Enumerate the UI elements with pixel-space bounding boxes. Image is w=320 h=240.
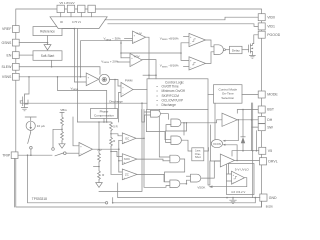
junction oc out — [143, 138, 145, 140]
wire ZC out — [137, 174, 170, 181]
VBG stack top — [60, 112, 64, 129]
wire contact to TRIP wire — [30, 149, 32, 155]
wire SW rail — [252, 103, 259, 151]
wire gm out to rail — [93, 148, 119, 150]
wire bst down to diode — [242, 110, 244, 137]
wire DAC select to VID0 — [105, 17, 258, 20]
junction TRIP b — [30, 154, 32, 156]
svg-text:10 µA: 10 µA — [37, 124, 45, 128]
svg-text:−UV: −UV — [136, 32, 142, 36]
gate G4 — [170, 155, 180, 163]
junction node2 — [103, 121, 105, 123]
hysteresis mark PG low — [192, 62, 195, 65]
pin MODE — [258, 91, 265, 98]
junction VBG tap — [61, 129, 63, 131]
wire G3 out to one-shot — [182, 140, 192, 151]
comparator PWM — [121, 82, 133, 96]
wire logic vertical B — [146, 110, 171, 140]
wire VSNS main — [19, 76, 86, 78]
wire PG high out — [206, 40, 215, 47]
junction VSNS discharge branch — [28, 76, 30, 78]
pin EN — [12, 52, 19, 59]
pin top3 — [78, 5, 85, 12]
junction window fb — [180, 52, 182, 54]
pin VID1 — [258, 23, 265, 30]
svg-text:EN: EN — [7, 53, 12, 57]
svg-text:•: • — [157, 85, 158, 89]
svg-text:7 R: 7 R — [97, 148, 101, 152]
svg-text:5 R: 5 R — [113, 125, 117, 129]
svg-text:NOC: NOC — [124, 157, 130, 161]
svg-text:Discharge: Discharge — [162, 103, 177, 107]
svg-text:V5OK: V5OK — [197, 186, 205, 190]
svg-text:GND: GND — [269, 196, 277, 200]
junction sw — [251, 119, 253, 121]
wire logic vertical A — [144, 110, 170, 188]
block 5-V UVLO — [227, 164, 255, 195]
pin top2 — [67, 5, 74, 12]
wire NOC out — [137, 159, 163, 161]
wire VBG tap to contact — [53, 129, 62, 147]
junction rail OV — [120, 52, 122, 54]
junction comp node — [114, 79, 116, 81]
wire comp node to phase comp — [114, 80, 116, 109]
switch arm (OC set select) — [28, 132, 31, 143]
junction SLEW soft-start — [51, 66, 53, 68]
wire on-time to xcon — [214, 103, 216, 139]
wire Soft-Start bottom to SLEW — [51, 60, 53, 66]
wire one-shot out — [204, 148, 209, 151]
svg-text:DRVL: DRVL — [268, 160, 277, 164]
svg-text:VSENS −8/16%: VSENS −8/16% — [160, 64, 179, 69]
window comparator feedback rail — [121, 52, 181, 54]
svg-text:VREF: VREF — [2, 27, 11, 31]
wire UVLO inputs — [227, 164, 232, 182]
junction gnd b — [232, 197, 234, 199]
svg-text:TPS53318: TPS53318 — [32, 197, 47, 201]
pin TRIP — [11, 152, 18, 159]
wire fb to comps — [181, 43, 189, 61]
svg-text:Reference: Reference — [40, 30, 55, 34]
junction NOC tap — [110, 151, 112, 153]
svg-text:VSENS + 20%: VSENS + 20% — [101, 59, 118, 64]
pin SLEW — [12, 63, 19, 70]
comparator UVLO — [232, 171, 245, 184]
wire low driver out to DRVL — [235, 159, 260, 161]
svg-text:Compensation: Compensation — [94, 114, 114, 118]
gm amp OCL — [79, 143, 93, 157]
switch arm 2 — [55, 153, 63, 156]
svg-text:R: R — [113, 139, 115, 143]
pin VREF — [12, 26, 19, 33]
svg-text:OC: OC — [125, 136, 129, 140]
junction node3 — [106, 121, 108, 123]
wire OC out up to control logic — [136, 137, 144, 139]
gate G6 — [191, 174, 201, 182]
transistor PGOOD FET — [249, 35, 259, 56]
wire gm top input — [73, 117, 79, 146]
junction TRIP a — [27, 154, 29, 156]
wire G3 inputs — [166, 131, 187, 142]
wire gm out to PWM — [110, 80, 122, 87]
svg-text:R: R — [102, 173, 104, 177]
gate PG NOR — [214, 45, 223, 55]
comparator PG high — [189, 33, 206, 46]
hysteresis mark UVLO — [234, 176, 237, 179]
junction rail gm — [118, 148, 120, 150]
svg-text:VSNS: VSNS — [2, 75, 12, 79]
wire high driver out to DH — [237, 119, 258, 121]
wire VSNS branch down to divider — [58, 77, 107, 122]
pin GND — [260, 194, 267, 201]
block Phase Compensation — [91, 109, 118, 119]
block Soft-Start — [33, 51, 62, 61]
svg-text:ZC: ZC — [125, 173, 129, 177]
svg-text:Shot: Shot — [195, 155, 201, 159]
svg-text:B0295: B0295 — [266, 206, 274, 209]
pin GSNS — [12, 39, 19, 46]
junction gsns-gnd — [47, 42, 49, 44]
pin BST — [258, 106, 265, 113]
contact circle common — [64, 152, 67, 155]
contact circle VBG — [52, 148, 55, 151]
wire pg hi label stub — [184, 36, 190, 38]
svg-text:DH: DH — [267, 118, 273, 122]
wire VSNS up to OV/UV rail — [81, 41, 122, 77]
gate G3 — [171, 136, 182, 144]
wire G6 out to low driver — [201, 161, 221, 178]
pin V5 top1 — [57, 5, 64, 12]
wire Reference to DAC node — [62, 28, 74, 30]
bubble gate output — [223, 49, 225, 51]
wire discharge FET drain from VSNS — [25, 77, 30, 96]
wire control logic to control mode block — [208, 94, 214, 96]
wire into control logic top — [143, 74, 156, 76]
resistor 7R (left string) — [98, 122, 101, 162]
junction left tap — [98, 166, 100, 168]
wire XCON sense DH — [225, 120, 238, 141]
svg-text:VID0: VID0 — [267, 15, 275, 19]
comparator ZC — [122, 169, 137, 180]
block Reference — [33, 27, 62, 36]
wire G4 out — [165, 159, 185, 182]
pin SW — [258, 124, 265, 131]
ground (PGOOD FET) — [250, 55, 256, 58]
wire OV output to control logic — [142, 60, 156, 79]
wire tap to NOC — [111, 151, 122, 156]
comparator UV — [133, 31, 146, 44]
wire common to gm amp — [66, 152, 79, 154]
junction gnd a — [226, 197, 228, 199]
ground (discharge FET) — [21, 108, 27, 111]
wire TRIP pin stem down to border — [14, 159, 16, 208]
wire Reference bottom to ground — [47, 36, 49, 45]
junction discharge — [141, 102, 143, 104]
wire UV label stub — [125, 37, 133, 39]
pin DH — [258, 116, 265, 123]
svg-text:0.75 V1: 0.75 V1 — [72, 20, 81, 24]
svg-text:PGOOD: PGOOD — [267, 33, 280, 37]
svg-text:•: • — [157, 98, 158, 102]
gate G2 — [171, 119, 181, 127]
ground (left string) — [96, 180, 103, 188]
svg-text:BST: BST — [267, 108, 275, 112]
svg-text:Delay: Delay — [232, 48, 240, 52]
junction VSNS ovuv branch — [80, 76, 82, 78]
wire XCON sense DL — [225, 145, 237, 161]
svg-text:Minimum On/Off: Minimum On/Off — [162, 89, 185, 93]
svg-text:SW: SW — [267, 125, 273, 129]
wire G5 out — [180, 180, 191, 184]
wire G1 out — [160, 114, 168, 120]
wire GSNS to ground node — [19, 42, 47, 44]
wire PG low out — [206, 52, 215, 64]
resistor R (right string) — [110, 137, 113, 146]
junction bottom rail — [112, 202, 114, 204]
wire G6 input — [186, 175, 190, 177]
wire EN to Soft-Start — [19, 54, 33, 56]
pin top4 — [88, 5, 95, 12]
wire driver section rails — [208, 110, 220, 186]
svg-text:Selection: Selection — [221, 96, 234, 100]
junction node1 — [98, 121, 100, 123]
comparator OV — [130, 54, 142, 67]
switch contact circle — [30, 147, 33, 150]
current source 10uA — [26, 121, 35, 130]
wire g2 branch down — [184, 123, 186, 135]
wire BST rail — [237, 110, 258, 114]
resistor VBG lower — [61, 129, 64, 141]
ground (analog, below Reference) — [44, 45, 51, 50]
block Control Logic — [147, 79, 208, 110]
junction v5 b — [256, 150, 258, 152]
svg-text:OCL/OVP/UVP: OCL/OVP/UVP — [162, 98, 184, 102]
wire border bottom up to gnd pin — [261, 201, 263, 207]
svg-text:TRIP: TRIP — [2, 153, 11, 157]
pin PGOOD — [258, 31, 265, 38]
junction ref-dac — [74, 28, 76, 30]
resistor 5R (right string) — [110, 122, 113, 131]
comparator OC — [122, 133, 136, 144]
wire UVLO out to V5OK — [211, 178, 247, 187]
wire rail stubs — [119, 140, 123, 172]
wire left tap — [94, 166, 100, 168]
arrow into XCON bottom — [223, 144, 226, 146]
svg-text:GSNS: GSNS — [1, 41, 12, 45]
wire top pins into DAC — [61, 13, 92, 17]
svg-text:SLEW: SLEW — [1, 65, 12, 69]
wire rail to UV comp minus — [121, 40, 133, 42]
wire tap to ZC — [111, 173, 122, 175]
gate G1 — [151, 110, 161, 117]
wire logic vertical C — [159, 110, 170, 158]
wire gate to delay — [225, 49, 229, 51]
svg-text:SKIP/FCCM: SKIP/FCCM — [162, 94, 180, 98]
junction g2b — [186, 122, 188, 124]
junction cl in a — [148, 74, 150, 76]
labels: pin names right — [267, 15, 281, 199]
junction gnd c — [255, 197, 257, 199]
svg-text:VSENS − 30%: VSENS − 30% — [104, 37, 121, 42]
svg-text:On/Off Time: On/Off Time — [162, 85, 179, 89]
junction v5 a — [252, 150, 254, 152]
block Control Mode On-Time Selection — [214, 85, 243, 104]
wire OV/UV rail vertical — [120, 41, 122, 58]
wire TRIP — [18, 154, 52, 156]
driver low — [220, 154, 234, 167]
DAC mux trapezoid — [50, 17, 107, 29]
rail comparator inputs — [118, 140, 120, 172]
arrow PGOOD FET — [251, 48, 253, 50]
wire G4 inputs — [163, 160, 170, 162]
wire discharge signal — [20, 101, 147, 103]
svg-text:5-V UVLO: 5-V UVLO — [235, 167, 250, 171]
wire G2 input — [166, 125, 171, 131]
wire bottom rail right — [113, 198, 256, 203]
svg-text:Discharge: Discharge — [109, 99, 123, 103]
wire pg lo label stub — [184, 66, 190, 68]
gate G5 — [170, 180, 180, 188]
svg-text:•: • — [157, 89, 158, 93]
junction g2a — [183, 122, 185, 124]
wire rail to OV comp plus — [121, 57, 130, 59]
wire OV label stub — [118, 61, 131, 63]
wire GND rail — [118, 183, 260, 198]
junction bst — [242, 109, 244, 111]
wire ramp to PWM minus — [119, 93, 122, 123]
rail current source supply — [25, 117, 36, 121]
driver high — [222, 113, 237, 126]
wire tap to OC plus — [111, 134, 122, 136]
junction xcon dl — [236, 160, 238, 162]
labels: pin names left — [1, 27, 12, 157]
arrow V5OK — [209, 186, 213, 188]
wire phase comp bottom node — [78, 119, 112, 123]
svg-text:•: • — [157, 94, 158, 98]
pin DRVL — [259, 158, 266, 165]
junction g5 — [186, 183, 188, 185]
block Delay — [230, 46, 243, 53]
contact circle bottom switch — [105, 202, 107, 204]
svg-text:VID1: VID1 — [267, 25, 275, 29]
wire DAC ref down to error amp plus — [74, 29, 86, 82]
pin VID0 — [258, 14, 265, 21]
wire PWM out — [133, 89, 147, 91]
svg-text:MODE: MODE — [267, 93, 278, 97]
wire source to switch arm — [30, 130, 32, 132]
svg-text:V5: V5 — [268, 149, 272, 153]
svg-text:PWM: PWM — [125, 79, 133, 83]
svg-text:•: • — [157, 103, 158, 107]
wire DAC output down to compensation node — [77, 29, 79, 123]
svg-text:XCON: XCON — [213, 142, 221, 146]
svg-text:+OV: +OV — [134, 54, 140, 58]
wire comparator column lines — [99, 103, 142, 191]
wire V5 rail — [232, 151, 259, 156]
junction cl in b — [155, 74, 157, 76]
pin V5 — [259, 147, 266, 154]
wire right verticals — [253, 103, 257, 198]
junction rail noc — [118, 160, 120, 162]
junction rail UV — [120, 42, 122, 44]
junction VSNS sense branch — [57, 76, 59, 78]
XCON circle — [211, 140, 222, 148]
error amp — [86, 73, 99, 86]
ground (VBG divider) — [59, 141, 65, 148]
junction v5 diode — [242, 150, 244, 152]
wire MODE to control mode block — [242, 94, 258, 96]
hysteresis mark PG high — [192, 39, 195, 42]
ground (main rail) — [230, 198, 237, 204]
resistor R (left string bottom) — [98, 162, 101, 180]
gm stage circle — [99, 74, 109, 84]
wire G2 out to high driver — [181, 120, 222, 123]
wire UV output to control logic — [146, 37, 149, 79]
wire SLEW — [19, 67, 100, 75]
svg-text:Soft-Start: Soft-Start — [41, 54, 55, 58]
svg-text:4.6 V/4.2 V: 4.6 V/4.2 V — [231, 190, 245, 194]
transistor discharge FET — [20, 96, 28, 107]
wire DAC to VID1 — [108, 24, 258, 27]
block 1ms One-Shot — [192, 148, 204, 161]
diode BST — [241, 136, 245, 138]
wire TRIP branch down to bottom — [28, 155, 106, 203]
comparator PG low — [189, 57, 206, 70]
svg-text:VSENS +8/16%: VSENS +8/16% — [160, 37, 179, 42]
IC border — [16, 9, 262, 207]
junction OC tap — [110, 133, 112, 135]
arrow into XCON top — [223, 140, 226, 142]
wire string mid — [110, 131, 112, 137]
junction xcon dh — [238, 119, 240, 121]
svg-text:V5 1.8V/2V: V5 1.8V/2V — [59, 1, 74, 5]
wire diode to V5 — [242, 143, 244, 151]
wire string lower — [110, 146, 112, 174]
wire G1 inputs — [142, 110, 151, 123]
comparator NOC — [122, 154, 137, 165]
pin VSNS — [12, 73, 19, 80]
svg-text:VBG: VBG — [60, 108, 67, 112]
wire delay to FET gate — [242, 49, 249, 51]
